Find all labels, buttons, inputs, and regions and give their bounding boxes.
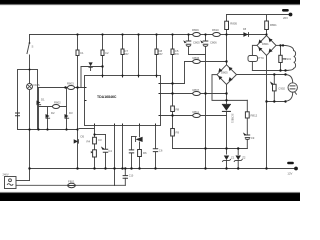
svg-text:R803: R803 xyxy=(67,82,74,86)
svg-text:R805: R805 xyxy=(230,22,237,26)
svg-text:F801: F801 xyxy=(68,180,75,184)
svg-text:D3: D3 xyxy=(69,111,73,115)
svg-text:SCR801: SCR801 xyxy=(230,114,233,124)
svg-text:R801: R801 xyxy=(270,23,277,27)
svg-text:C806: C806 xyxy=(210,41,217,45)
svg-text:TDA16846C: TDA16846C xyxy=(97,95,117,99)
svg-text:R8: R8 xyxy=(176,108,180,112)
svg-text:PTC: PTC xyxy=(258,56,264,60)
svg-text:C10: C10 xyxy=(129,175,134,178)
svg-text:C7: C7 xyxy=(125,49,129,53)
svg-text:R809: R809 xyxy=(192,28,199,32)
svg-text:R810: R810 xyxy=(212,28,219,32)
svg-text:R812: R812 xyxy=(251,114,258,118)
svg-text:C8: C8 xyxy=(159,49,163,53)
svg-text:R807: R807 xyxy=(193,88,200,92)
svg-text:63V: 63V xyxy=(159,54,164,56)
svg-text:C805: C805 xyxy=(193,41,200,45)
svg-text:DGS: DGS xyxy=(34,83,40,87)
svg-text:D1: D1 xyxy=(41,98,45,102)
svg-text:R6: R6 xyxy=(143,151,147,155)
svg-text:63V: 63V xyxy=(125,54,130,56)
svg-text:C901: C901 xyxy=(285,57,292,61)
svg-text:R811: R811 xyxy=(193,110,200,114)
svg-text:C5: C5 xyxy=(175,49,179,53)
svg-text:C3: C3 xyxy=(98,138,102,142)
svg-text:R806: R806 xyxy=(193,56,200,60)
svg-text:C9: C9 xyxy=(251,136,255,140)
svg-text:12V: 12V xyxy=(287,172,292,176)
svg-text:D5: D5 xyxy=(81,135,85,139)
svg-text:D805: D805 xyxy=(221,71,228,75)
svg-text:Z2: Z2 xyxy=(242,155,246,159)
svg-text:R802: R802 xyxy=(54,101,61,105)
svg-text:D801: D801 xyxy=(262,42,269,46)
svg-text:C902: C902 xyxy=(278,86,285,90)
svg-text:26V: 26V xyxy=(283,16,288,20)
svg-text:C1: C1 xyxy=(80,51,84,55)
svg-text:Z1: Z1 xyxy=(231,155,235,159)
svg-text:C2: C2 xyxy=(105,51,109,55)
svg-text:240V: 240V xyxy=(3,173,9,177)
svg-text:D2: D2 xyxy=(51,111,55,115)
svg-text:R4: R4 xyxy=(87,140,91,144)
svg-text:63V: 63V xyxy=(175,54,180,56)
svg-text:C6: C6 xyxy=(159,149,163,153)
svg-text:C4: C4 xyxy=(108,149,112,153)
svg-text:R9: R9 xyxy=(176,131,180,135)
svg-text:S: S xyxy=(32,45,34,49)
